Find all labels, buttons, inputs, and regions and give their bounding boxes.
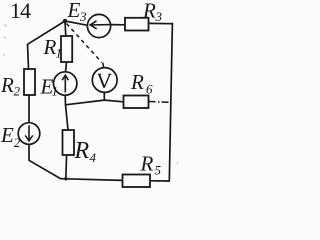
svg-text:2: 2 xyxy=(14,84,21,99)
svg-text:5: 5 xyxy=(155,163,162,178)
wire: bottom-right corner to R5 xyxy=(150,180,170,182)
wire: E3 right terminal to R3 xyxy=(111,24,126,26)
resistor R2 xyxy=(24,69,35,95)
svg-text:4: 4 xyxy=(90,150,97,165)
wire: R4 top lead up to middle-wire junction xyxy=(66,105,69,130)
svg-text:1: 1 xyxy=(56,46,63,61)
svg-text:6: 6 xyxy=(146,82,153,97)
wire: right edge vertical xyxy=(169,23,172,182)
svg-text:3: 3 xyxy=(79,9,87,24)
svg-text:R: R xyxy=(142,0,156,23)
dashed stub above voltmeter xyxy=(102,63,105,67)
wire: R2 top lead xyxy=(28,44,29,69)
dashed line: node A to voltmeter top xyxy=(67,24,102,63)
svg-text:1: 1 xyxy=(52,84,59,99)
wire: E2 lower lead xyxy=(28,144,30,161)
svg-text:R: R xyxy=(0,73,14,97)
resistor R1 xyxy=(61,36,72,62)
resistor R6 xyxy=(124,96,149,109)
wire: R1 bottom to E1 top xyxy=(66,62,67,72)
wire: R4 bottom lead xyxy=(65,155,68,179)
svg-text:R: R xyxy=(74,138,90,164)
svg-text:R: R xyxy=(43,35,57,59)
svg-text:2: 2 xyxy=(14,135,21,150)
resistor R3 xyxy=(125,18,149,31)
wire: middle horizontal (T junction to R6) xyxy=(66,100,124,105)
svg-text:E: E xyxy=(0,123,14,147)
node A (junction dot at top) xyxy=(63,19,67,23)
svg-text:14: 14 xyxy=(10,0,31,23)
wire: R3 to top-right corner xyxy=(149,22,173,24)
svg-text:R: R xyxy=(130,70,144,94)
wire: diagonal bottom-left (junction to E2 branch) xyxy=(29,160,61,179)
wire: node A to E3 left terminal xyxy=(65,21,88,25)
wire: bottom horizontal (R4 junction to R5) xyxy=(61,179,123,181)
voltmeter V (letter drawn as strokes) xyxy=(92,68,117,93)
wire: E1 bottom to middle-wire T junction xyxy=(64,95,66,105)
EMF source E3 (circle with left arrow) xyxy=(87,14,111,37)
svg-text:R: R xyxy=(140,152,154,176)
junction at R4 bottom xyxy=(64,177,67,180)
resistor R4 xyxy=(63,130,75,155)
dash-dot wire: R6 to right edge xyxy=(149,101,169,103)
wire: E2 upper lead xyxy=(28,95,30,123)
scan speckles xyxy=(3,25,178,164)
wire: node A down to R1 xyxy=(64,21,67,36)
EMF source E2 (circle with down arrow) xyxy=(18,123,40,145)
svg-text:3: 3 xyxy=(155,9,163,24)
EMF source E1 (circle with up arrow) xyxy=(53,72,76,95)
wire: voltmeter bottom stub xyxy=(103,93,105,101)
wire: diagonal up-right to node A xyxy=(28,21,66,44)
svg-text:E: E xyxy=(67,0,81,22)
resistor R5 xyxy=(123,175,151,188)
